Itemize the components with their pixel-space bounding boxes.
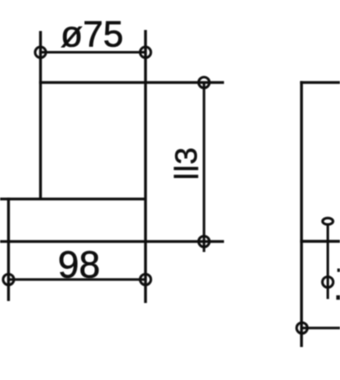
side view: dimension line from slot down [327, 225, 330, 300]
terminator circle left of ø75 [35, 47, 46, 58]
front view: base left edge with lower extension line [7, 198, 10, 301]
front view: column right edge with upper and lower extension line [144, 30, 147, 303]
dimension line 98 [9, 278, 146, 281]
svg-text:ø75: ø75 [61, 14, 124, 55]
front view: column top edge extended right to height dimension [39, 81, 224, 84]
dimension line 113 (vertical) [203, 83, 206, 253]
terminator circle bottom of 113 [199, 236, 210, 247]
svg-text:98: 98 [58, 245, 100, 287]
side view: top edge (clipped at right) [300, 81, 340, 84]
front view: base top edge [0, 198, 147, 201]
dimension line ø75 [41, 51, 146, 54]
front view: column left edge with upper extension line [39, 31, 42, 199]
clipped dimension text fragment (lower) [336, 295, 340, 299]
side view: base line (clipped at right) [300, 240, 340, 243]
terminator circle top of 113 [199, 77, 210, 88]
side view: slot hole (oval) [323, 218, 333, 224]
svg-text:3: 3 [170, 147, 204, 164]
label 113 (rotated): digit 3 [170, 147, 204, 164]
label 113 (rotated): digit 1 (bar) [174, 175, 198, 178]
side view: bottom dimension line (clipped at right) [302, 327, 340, 330]
terminator circle right of 98 [140, 274, 151, 285]
clipped dimension text fragment (upper) [337, 269, 340, 272]
terminator circle on slot dimension [322, 277, 333, 288]
terminator circle bottom of side view [297, 323, 308, 334]
label 113 (rotated): digit 1 (bar) [174, 167, 198, 170]
terminator circle left of 98 [3, 274, 14, 285]
side view: left edge with lower extension line [300, 81, 303, 347]
terminator circle right of ø75 [140, 47, 151, 58]
front view: base bottom edge extended right to height dimension [0, 240, 224, 243]
